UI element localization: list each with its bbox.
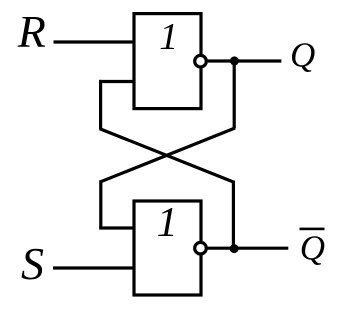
wire S input (53, 266, 135, 269)
wire right rail lower vertical (232, 181, 235, 249)
node Qbar junction dot (230, 244, 239, 253)
svg-text:S: S (21, 238, 44, 289)
svg-text:Q: Q (300, 228, 325, 267)
svg-text:R: R (17, 6, 46, 57)
U1 inversion bubble (195, 55, 207, 67)
gate U2 NOR body (134, 201, 201, 295)
svg-text:1: 1 (159, 16, 178, 58)
gate U1 NOR body (134, 14, 201, 109)
svg-text:Q: Q (290, 35, 315, 74)
wire top gate feedback input (99, 80, 135, 83)
svg-text:1: 1 (157, 199, 178, 246)
wire left rail upper vertical (99, 80, 102, 129)
node Qbar overline (300, 228, 325, 231)
wire bottom gate feedback input (99, 226, 135, 229)
wire right rail upper vertical (233, 61, 236, 129)
node Q junction dot (230, 56, 239, 65)
wire R input (54, 40, 136, 43)
wire left rail lower vertical (99, 180, 102, 228)
U2 inversion bubble (195, 242, 207, 254)
wire Qbar output (206, 247, 288, 250)
wire Q output (206, 59, 281, 62)
wire diagonal A (left-top to right-bottom) (100, 129, 234, 182)
wire diagonal B (right-top to left-bottom) (101, 128, 235, 182)
